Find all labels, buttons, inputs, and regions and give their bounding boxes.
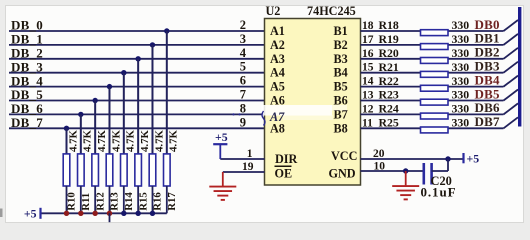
bus entry DB7	[504, 117, 519, 128]
wire DB_3 horizontal	[9, 72, 265, 74]
net label DB6	[475, 100, 500, 115]
value label 330 of R23	[452, 88, 470, 102]
svg-text:DB5: DB5	[475, 86, 500, 101]
pin name B8	[334, 121, 348, 135]
resistor R10 4.7K	[63, 154, 70, 213]
svg-text:R23: R23	[379, 88, 399, 102]
bus entry DB3	[504, 62, 519, 73]
pin name A7 (smudged)	[269, 110, 285, 124]
bus entry DB6	[504, 103, 519, 114]
designator label R21	[379, 60, 399, 74]
pin name B7	[334, 107, 348, 121]
wire drop DB_7 to resistor	[66, 128, 68, 155]
value label 4.7K of R10	[67, 130, 79, 152]
value label 4.7K of R11	[82, 130, 94, 152]
svg-text:VCC: VCC	[331, 149, 357, 163]
wire drop DB_2 to resistor	[137, 59, 139, 155]
pin name A2	[270, 38, 285, 52]
svg-text:B4: B4	[334, 66, 348, 80]
svg-text:5: 5	[240, 60, 246, 74]
svg-text:DB0: DB0	[475, 17, 500, 32]
pin name B2	[334, 38, 348, 52]
pin name B6	[334, 94, 348, 108]
node DB_7 junction	[64, 126, 69, 131]
net label DB_0	[11, 18, 43, 33]
resistor R19 330 body	[421, 44, 449, 50]
svg-text:74HC245: 74HC245	[307, 4, 356, 18]
svg-text:A4: A4	[270, 66, 285, 80]
part type 74HC245	[307, 4, 356, 18]
value label 4.7K of R13	[110, 130, 122, 152]
designator label R14	[123, 192, 135, 211]
pin number 10 (GND)	[374, 161, 386, 173]
svg-text:DB_3: DB_3	[11, 59, 43, 74]
wire B5 output	[361, 86, 504, 88]
pin number 3 (A2)	[240, 32, 246, 46]
pin name A5	[270, 80, 285, 94]
pin number 7 (A6)	[240, 88, 246, 102]
svg-text:A7: A7	[269, 110, 285, 124]
svg-text:DIR: DIR	[275, 152, 298, 166]
wire B4 output	[361, 72, 504, 74]
svg-text:9: 9	[240, 115, 246, 129]
svg-text:330: 330	[452, 46, 470, 60]
svg-text:B1: B1	[334, 24, 348, 38]
pin number 1 (DIR)	[247, 148, 253, 160]
artifact white smudge	[262, 105, 348, 120]
resistor R14 4.7K	[121, 154, 128, 213]
svg-text:DB7: DB7	[475, 114, 500, 129]
net label DB_1	[11, 32, 43, 47]
svg-text:0.1uF: 0.1uF	[421, 185, 457, 200]
svg-text:R10: R10	[66, 192, 78, 211]
wire GND pin 10	[361, 170, 423, 172]
pin number 13 (B6)	[362, 90, 374, 102]
op-amp U2 74HC245 body	[265, 19, 361, 186]
net label DB2	[475, 45, 500, 60]
resistor R18 330 body	[421, 30, 449, 36]
wire DB_7 horizontal	[9, 127, 265, 129]
svg-text:A1: A1	[270, 24, 285, 38]
pin name B1	[334, 24, 348, 38]
svg-text:4.7K: 4.7K	[168, 130, 180, 152]
pin name A4	[270, 66, 285, 80]
resistor R25 330 body	[421, 127, 449, 133]
svg-text:6: 6	[240, 74, 246, 88]
svg-text:DB_1: DB_1	[11, 32, 43, 47]
wire B8 output	[361, 127, 504, 129]
designator label R16	[152, 192, 164, 211]
pin number 14 (B5)	[362, 76, 374, 88]
wire DB_6 horizontal	[9, 113, 265, 115]
node rail junction R15	[135, 211, 140, 216]
svg-text:13: 13	[362, 90, 374, 102]
svg-text:4.7K: 4.7K	[153, 130, 165, 152]
value label 330 of R20	[452, 46, 470, 60]
svg-text:17: 17	[362, 34, 374, 46]
designator label R11	[80, 193, 92, 211]
value label 4.7K of R12	[96, 130, 108, 152]
wire DB_1 horizontal	[9, 44, 265, 46]
wire drop DB_5 to resistor	[94, 101, 96, 155]
node VCC junction	[445, 156, 450, 161]
svg-text:R24: R24	[379, 102, 399, 116]
svg-text:DB_4: DB_4	[11, 73, 43, 88]
bus DB[0..7] vertical	[518, 7, 521, 127]
pin name VCC	[331, 149, 357, 163]
net label DB3	[475, 59, 500, 74]
net label DB_7	[11, 115, 43, 130]
svg-text:OE: OE	[275, 166, 293, 180]
value label 4.7K of R14	[125, 130, 137, 152]
svg-text:R20: R20	[379, 46, 399, 60]
svg-text:DB3: DB3	[475, 59, 500, 74]
svg-text:R16: R16	[152, 192, 164, 211]
pin name A8	[270, 121, 285, 135]
resistor R17 4.7K	[164, 154, 171, 213]
net label DB_3	[11, 59, 43, 74]
svg-text:R11: R11	[80, 193, 92, 211]
svg-text:DB_7: DB_7	[11, 115, 43, 130]
pin number 17 (B2)	[362, 34, 374, 46]
pin number 19 (OE)	[242, 161, 254, 173]
net label DB_5	[11, 87, 43, 102]
svg-text:4: 4	[240, 46, 247, 60]
svg-text:R18: R18	[379, 18, 399, 32]
svg-text:A5: A5	[270, 80, 285, 94]
svg-text:R15: R15	[137, 192, 149, 211]
svg-text:R14: R14	[123, 192, 135, 211]
wire VCC pin 20 to +5	[361, 158, 464, 160]
pin name GND	[329, 166, 356, 180]
net label DB_2	[11, 46, 43, 61]
node DB_4 junction	[107, 84, 112, 89]
svg-text:330: 330	[452, 18, 470, 32]
svg-text:DB_6: DB_6	[11, 101, 43, 116]
resistor R11 4.7K	[78, 154, 85, 213]
power +5 above DIR	[213, 130, 228, 159]
node DB_5 junction	[92, 98, 97, 103]
pin number 6 (A5)	[240, 74, 246, 88]
wire DB_0 horizontal	[9, 30, 265, 32]
svg-text:DB2: DB2	[475, 45, 500, 60]
svg-text:330: 330	[452, 116, 470, 130]
node rail junction R12	[92, 211, 97, 216]
svg-text:R22: R22	[379, 74, 399, 88]
svg-text:A3: A3	[270, 52, 285, 66]
resistor R13 4.7K	[106, 154, 113, 213]
pin number 4 (A3)	[240, 46, 247, 60]
pin number 11 (B8)	[362, 117, 373, 129]
svg-text:B2: B2	[334, 38, 348, 52]
value label 4.7K of R16	[153, 130, 165, 152]
svg-text:B5: B5	[334, 80, 348, 94]
node rail junction R10	[64, 211, 69, 216]
designator label R24	[379, 102, 399, 116]
pin number 20 (VCC)	[373, 148, 385, 160]
resistor R22 330 body	[421, 85, 449, 91]
value label 330 of R24	[452, 102, 470, 116]
wire DB_5 horizontal	[9, 100, 265, 102]
pin number 2 (A1)	[240, 18, 246, 32]
svg-text:R13: R13	[109, 192, 121, 211]
bus entry DB2	[504, 48, 519, 59]
value label 330 of R21	[452, 60, 470, 74]
value label 330 of R22	[452, 74, 470, 88]
svg-text:4.7K: 4.7K	[67, 130, 79, 152]
net label DB_4	[11, 73, 43, 88]
value label 330 of R25	[452, 116, 470, 130]
power +5 right	[464, 152, 480, 166]
svg-text:DB_0: DB_0	[11, 18, 43, 33]
value label 4.7K of R15	[139, 130, 151, 152]
wire B7 output	[361, 113, 504, 115]
pin name OE with overline	[275, 166, 293, 180]
svg-text:12: 12	[362, 103, 374, 115]
designator label R18	[379, 18, 399, 32]
svg-text:R19: R19	[379, 32, 399, 46]
svg-text:DB1: DB1	[475, 31, 500, 46]
wire DB_2 horizontal	[9, 58, 265, 60]
svg-text:DB4: DB4	[475, 72, 500, 87]
svg-text:15: 15	[362, 62, 374, 74]
value label 4.7K of R17	[168, 130, 180, 152]
node DB_3 junction	[121, 70, 126, 75]
svg-text:R21: R21	[379, 60, 399, 74]
designator label R25	[379, 116, 399, 130]
pin number 12 (B7)	[362, 103, 374, 115]
svg-text:11: 11	[362, 117, 373, 129]
value label 0.1uF	[421, 185, 457, 200]
pin name A1	[270, 24, 285, 38]
value label 330 of R19	[452, 32, 470, 46]
wire DB_4 horizontal	[9, 86, 265, 88]
ground at OE	[209, 172, 236, 200]
designator label R12	[94, 192, 106, 211]
node DB_6 junction	[78, 112, 83, 117]
svg-text:B3: B3	[334, 52, 348, 66]
svg-text:GND: GND	[329, 166, 356, 180]
wire pin 19 OE	[223, 171, 265, 173]
artifact blue brace	[232, 111, 265, 126]
bus entry DB1	[504, 34, 519, 45]
value label 330 of R18	[452, 18, 470, 32]
resistor R15 4.7K	[135, 154, 142, 213]
designator label R15	[137, 192, 149, 211]
svg-text:330: 330	[452, 32, 470, 46]
wire pin 1 DIR	[220, 158, 264, 160]
designator label R23	[379, 88, 399, 102]
svg-text:DB_5: DB_5	[11, 87, 43, 102]
wire stub below rail	[108, 213, 110, 222]
wire drop DB_4 to resistor	[108, 87, 110, 155]
wire drop DB_1 to resistor	[151, 45, 153, 155]
pin name A3	[270, 52, 285, 66]
svg-text:3: 3	[240, 32, 246, 46]
svg-text:R12: R12	[94, 192, 106, 211]
resistor R12 4.7K	[92, 154, 99, 213]
pin name A6	[270, 94, 285, 108]
svg-text:U2: U2	[266, 4, 281, 18]
svg-text:16: 16	[362, 48, 374, 60]
pin number 5 (A4)	[240, 60, 246, 74]
svg-text:4.7K: 4.7K	[110, 130, 122, 152]
bus entry DB0	[504, 20, 519, 31]
pin number 9 (A8)	[240, 115, 246, 129]
net label DB_6	[11, 101, 43, 116]
svg-text:A2: A2	[270, 38, 285, 52]
wire drop DB_6 to resistor	[80, 114, 82, 154]
node rail junction R13	[107, 211, 112, 216]
pin name B5	[334, 80, 348, 94]
svg-text:330: 330	[452, 102, 470, 116]
wire +5 rail	[41, 212, 167, 214]
svg-text:R25: R25	[379, 116, 399, 130]
designator U2	[266, 4, 281, 18]
pin name B4	[334, 66, 348, 80]
capacitor C20	[424, 159, 448, 185]
svg-text:330: 330	[452, 60, 470, 74]
net label DB0	[475, 17, 500, 32]
svg-text:4.7K: 4.7K	[125, 130, 137, 152]
svg-text:+5: +5	[467, 152, 480, 166]
svg-text:R17: R17	[166, 192, 178, 211]
designator label R17	[166, 192, 178, 211]
node DB_1 junction	[150, 42, 155, 47]
value label C20	[431, 174, 452, 188]
node rail junction R16	[150, 211, 155, 216]
wire drop DB_3 to resistor	[123, 73, 125, 155]
pin number 15 (B4)	[362, 62, 374, 74]
svg-text:18: 18	[362, 20, 374, 32]
svg-text:4.7K: 4.7K	[139, 130, 151, 152]
designator label R22	[379, 74, 399, 88]
wire B1 output	[361, 30, 504, 32]
wire drop DB_0 to resistor	[166, 31, 168, 155]
node rail junction R11	[78, 211, 83, 216]
svg-text:330: 330	[452, 88, 470, 102]
svg-text:7: 7	[240, 88, 246, 102]
designator label R19	[379, 32, 399, 46]
pin name B3	[334, 52, 348, 66]
svg-text:2: 2	[240, 18, 246, 32]
svg-text:4.7K: 4.7K	[82, 130, 94, 152]
resistor R16 4.7K	[149, 154, 156, 213]
resistor R24 330 body	[421, 113, 449, 119]
net label DB1	[475, 31, 500, 46]
svg-text:DB_2: DB_2	[11, 46, 43, 61]
power +5 (rail, left)	[24, 206, 41, 220]
node DB_2 junction	[135, 56, 140, 61]
net label DB7	[475, 114, 500, 129]
resistor R23 330 body	[421, 99, 449, 105]
svg-text:330: 330	[452, 74, 470, 88]
svg-text:+5: +5	[24, 206, 37, 220]
wire B2 output	[361, 44, 504, 46]
svg-text:4.7K: 4.7K	[96, 130, 108, 152]
node DB_0 junction	[164, 28, 169, 33]
pin number 18 (B1)	[362, 20, 374, 32]
svg-text:8: 8	[240, 101, 246, 115]
pin name DIR	[275, 152, 298, 166]
svg-text:B8: B8	[334, 121, 348, 135]
net label DB5	[475, 86, 500, 101]
wire B6 output	[361, 100, 504, 102]
designator label R20	[379, 46, 399, 60]
bus entry DB5	[504, 90, 519, 101]
pin number 16 (B3)	[362, 48, 374, 60]
bus entry DB4	[504, 76, 519, 87]
wire B3 output	[361, 58, 504, 60]
resistor R21 330 body	[421, 71, 449, 77]
net label DB4	[475, 72, 500, 87]
svg-text:+5: +5	[215, 130, 228, 144]
resistor R20 330 body	[421, 58, 449, 64]
designator label R13	[109, 192, 121, 211]
designator label R10	[66, 192, 78, 211]
node GND junction	[403, 168, 408, 173]
ground at GND	[392, 171, 419, 199]
pin number 8 (A7)	[240, 101, 246, 115]
svg-text:DB6: DB6	[475, 100, 500, 115]
node rail junction R14	[121, 211, 126, 216]
svg-text:14: 14	[362, 76, 374, 88]
